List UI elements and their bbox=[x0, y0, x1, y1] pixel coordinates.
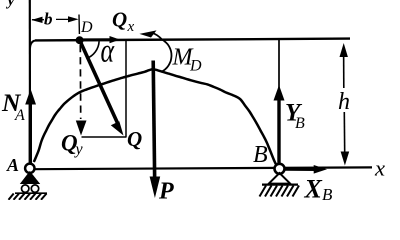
svg-text:B: B bbox=[295, 115, 305, 132]
force YB shaft bbox=[277, 98, 280, 168]
force Q arrowhead bbox=[111, 121, 124, 135]
force Qx arrowhead bbox=[110, 36, 121, 43]
svg-text:P: P bbox=[158, 179, 174, 201]
x axis bbox=[33, 167, 372, 169]
force NA arrowhead bbox=[25, 89, 36, 105]
component rectangle bottom side bbox=[82, 136, 127, 138]
support A roller left bbox=[22, 185, 29, 192]
svg-text:A: A bbox=[14, 107, 25, 124]
dimension b right arrowhead bbox=[68, 16, 79, 22]
svg-text:x: x bbox=[127, 19, 135, 35]
force Qy dashed line bbox=[79, 45, 81, 119]
top bar bbox=[35, 39, 350, 41]
dimension h upper line bbox=[343, 47, 345, 88]
dimension b line right part bbox=[56, 18, 73, 20]
svg-text:y: y bbox=[6, 0, 16, 9]
support A ground line bbox=[15, 192, 47, 194]
svg-text:X: X bbox=[304, 175, 323, 201]
tick above D bbox=[78, 15, 80, 35]
component rectangle right side bbox=[125, 40, 127, 137]
support B pin circle bbox=[275, 164, 285, 174]
support B ground line bbox=[262, 184, 298, 186]
svg-text:D: D bbox=[189, 58, 202, 75]
force Qx shaft bbox=[82, 38, 112, 41]
svg-text:Q: Q bbox=[112, 8, 127, 32]
force P shaft bbox=[153, 61, 155, 183]
fillet corner top-left bbox=[30, 40, 37, 48]
dimension h upper arrowhead bbox=[340, 43, 348, 57]
dimension b line left part bbox=[32, 19, 44, 21]
arch curve bbox=[34, 69, 277, 165]
svg-text:Q: Q bbox=[127, 127, 142, 151]
dimension h lower arrowhead bbox=[341, 152, 350, 166]
svg-text:b: b bbox=[44, 10, 53, 29]
svg-text:B: B bbox=[322, 185, 333, 200]
support A triangle bbox=[20, 171, 40, 184]
dimension h lower line bbox=[343, 112, 345, 153]
force P arrowhead bbox=[150, 177, 161, 199]
svg-text:h: h bbox=[338, 89, 350, 115]
angle alpha arc bbox=[86, 41, 99, 58]
svg-text:y: y bbox=[74, 141, 84, 158]
dimension b left arrowhead bbox=[31, 17, 42, 23]
support B hatching bbox=[260, 186, 300, 197]
YB construction line bbox=[278, 40, 280, 96]
support A roller right bbox=[31, 185, 38, 192]
force XB arrowhead bbox=[314, 165, 327, 174]
force YB arrowhead bbox=[274, 85, 285, 101]
force XB shaft bbox=[284, 167, 316, 171]
force NA shaft bbox=[29, 102, 32, 163]
svg-text:D: D bbox=[80, 19, 93, 36]
svg-text:A: A bbox=[6, 155, 19, 175]
support A hatching bbox=[9, 194, 47, 200]
node D dot bbox=[76, 36, 84, 44]
force Q shaft bbox=[81, 42, 118, 123]
moment MD arc bbox=[152, 33, 172, 72]
moment MD arrowhead bbox=[139, 30, 156, 37]
svg-text:B: B bbox=[253, 142, 268, 168]
y axis bbox=[29, 0, 31, 164]
svg-text:x: x bbox=[374, 156, 385, 181]
support B triangle bbox=[269, 173, 290, 184]
svg-text:α: α bbox=[101, 31, 116, 69]
support A pin circle bbox=[25, 164, 34, 173]
force Qy arrowhead bbox=[76, 121, 87, 136]
